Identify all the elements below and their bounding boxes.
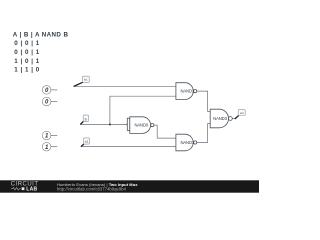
svg-text:NAND0: NAND0 [134, 123, 148, 128]
flag in1 [74, 76, 90, 86]
svg-text:NAND1: NAND1 [180, 89, 194, 94]
NAND gate NAND0 (middle, inverter-wired) [127, 117, 154, 134]
wire NAND0 output to NAND2 upper input [154, 125, 176, 138]
svg-text:1 | 1 | 0: 1 | 1 | 0 [14, 67, 40, 74]
svg-text:0 | 0 | 1: 0 | 0 | 1 [14, 49, 40, 56]
NAND gate NAND2 (bottom) [176, 134, 197, 151]
svg-text:in1: in1 [84, 78, 88, 82]
wire from sel vertical to NAND1 lower input [110, 96, 176, 124]
NAND gate NAND1 (top) [176, 83, 197, 100]
svg-text:0 | 0 | 1: 0 | 0 | 1 [14, 40, 40, 47]
wire NAND2 output to NAND3 lower input [197, 124, 210, 143]
junction at NAND0 input [127, 124, 129, 126]
flag in2 [81, 138, 90, 147]
NAND gate NAND3 (output) [210, 109, 232, 128]
svg-text:in2: in2 [85, 139, 89, 143]
svg-text:NAND3: NAND3 [213, 116, 227, 121]
logic state indicator 0 (second) [42, 97, 57, 106]
logic state indicator 1 (fourth) [42, 142, 57, 151]
junction at sel/NAND1 branch [109, 124, 111, 126]
flag b (select net) [80, 115, 88, 124]
svg-text:A | B | A NAND B: A | B | A NAND B [13, 31, 69, 38]
wire in1 to NAND1 upper input [74, 85, 176, 87]
wire sel horizontal [80, 124, 127, 126]
wire in2 to NAND2 lower input [81, 145, 176, 147]
logic state indicator 0 (top A) [42, 86, 57, 95]
svg-text:LAB: LAB [26, 187, 37, 193]
wire NAND3 output stub [232, 118, 235, 120]
logic state indicator 1 (third) [42, 131, 57, 140]
svg-text:NAND1: NAND1 [180, 140, 194, 145]
svg-text:out: out [240, 111, 244, 115]
svg-text:1 | 0 | 1: 1 | 0 | 1 [14, 58, 40, 65]
logo zigzag [11, 188, 21, 190]
flag out [235, 110, 245, 119]
wire NAND1 output to NAND3 upper input [197, 91, 210, 111]
svg-text:http://circuitlab.com/c83774b9: http://circuitlab.com/c83774b9qe9b4 [57, 186, 127, 191]
footer bar [0, 180, 259, 192]
